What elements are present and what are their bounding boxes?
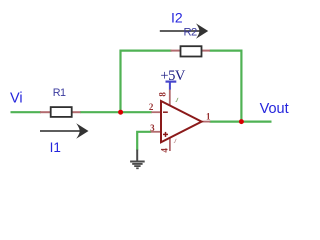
- label R2: [184, 27, 197, 39]
- wire R2 to node B feedback right: [210, 51, 242, 122]
- svg-text:1: 1: [206, 112, 211, 122]
- svg-text:R1: R1: [53, 87, 66, 99]
- label R1: [53, 87, 66, 99]
- svg-text:I1: I1: [50, 140, 61, 155]
- wire op-amp output to Vout: [210, 120, 272, 122]
- wire Vi input to R1: [11, 111, 42, 113]
- svg-text:4: 4: [159, 148, 169, 153]
- label Vout: [260, 101, 289, 117]
- pin 2 label: [149, 102, 154, 112]
- power +5V flag: [166, 82, 177, 90]
- svg-text:Vout: Vout: [260, 101, 289, 117]
- svg-text:+5V: +5V: [160, 68, 185, 84]
- label I2: [171, 10, 183, 26]
- resistor R1: [40, 107, 81, 117]
- pin 4 label: [159, 148, 169, 153]
- svg-text:Vi: Vi: [10, 91, 23, 107]
- label +5V: [160, 68, 185, 84]
- op-amp U1: [151, 89, 211, 151]
- node A junction: [118, 110, 123, 115]
- resistor R2: [171, 46, 211, 56]
- svg-text:3: 3: [150, 123, 155, 133]
- svg-text:R2: R2: [184, 27, 197, 39]
- wire node A to R2 feedback left: [121, 51, 172, 113]
- pin 1 label: [206, 112, 211, 122]
- wire op-amp non-inverting input to ground: [137, 132, 151, 150]
- label Vi: [10, 91, 23, 107]
- wire R1 to node A: [80, 111, 122, 113]
- current arrow I2: [160, 23, 208, 38]
- label I1: [50, 140, 61, 155]
- ground: [130, 150, 145, 169]
- pin 8 label: [157, 92, 167, 97]
- svg-text:8: 8: [157, 92, 167, 97]
- wire node A to op-amp inverting input: [121, 111, 152, 113]
- svg-text:I2: I2: [171, 10, 183, 26]
- pin 3 label: [150, 123, 155, 133]
- current arrow I1: [40, 123, 89, 138]
- node B junction: [239, 119, 244, 124]
- svg-text:2: 2: [149, 102, 154, 112]
